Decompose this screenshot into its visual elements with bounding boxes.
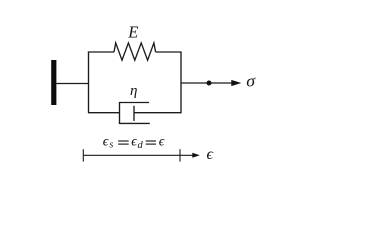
left tick: [82, 149, 84, 161]
svg-text:σ: σ: [246, 72, 255, 91]
arrowhead sigma: [231, 80, 241, 86]
output wire to sigma arrow: [181, 82, 233, 84]
svg-text:E: E: [127, 23, 138, 42]
wire bottom branch left: [88, 112, 120, 114]
dashpot cylinder top: [119, 102, 149, 104]
wire top branch right: [156, 51, 182, 53]
svg-text:d: d: [138, 140, 144, 151]
svg-text:ϵ: ϵ: [159, 135, 166, 150]
strain equation: first equals sign: [118, 141, 129, 144]
node right junction (vertical bus): [180, 52, 182, 113]
dimension line: [83, 154, 193, 156]
svg-text:s: s: [109, 140, 113, 151]
arrowhead epsilon: [192, 153, 200, 158]
node dot: [207, 81, 212, 86]
right tick: [179, 149, 181, 161]
strain equation: second equals sign: [146, 141, 156, 144]
wire wall to left node: [56, 83, 89, 85]
wire top branch left: [88, 51, 114, 53]
spring E (zigzag): [114, 43, 156, 60]
dashpot piston rod: [134, 112, 181, 114]
node left junction (vertical bus): [88, 52, 90, 113]
wall (fixed support): [51, 60, 56, 105]
dashpot cylinder bottom: [119, 122, 150, 124]
dashpot cylinder left wall: [119, 102, 121, 124]
dashpot piston plate: [133, 106, 135, 121]
svg-text:ϵ: ϵ: [207, 146, 214, 163]
svg-text:η: η: [130, 83, 137, 99]
